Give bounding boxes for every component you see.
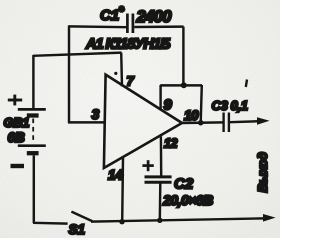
battery GB1	[18, 109, 46, 153]
wire output to C3	[182, 121, 223, 124]
wire output branch vertical	[201, 85, 202, 123]
svg-text:14: 14	[108, 168, 124, 183]
svg-text:0,1: 0,1	[231, 98, 248, 113]
svg-text:10: 10	[184, 108, 199, 123]
svg-text:2400: 2400	[136, 8, 173, 26]
output arrow head	[257, 117, 270, 125]
svg-text:20,0×6В: 20,0×6В	[162, 192, 213, 208]
stray dot near triangle corner	[114, 72, 117, 75]
ground rail arrow (common output)	[263, 214, 276, 222]
battery plus sign	[8, 95, 22, 106]
wire battery bottom lead	[33, 155, 35, 223]
wire bottom rail right	[91, 218, 264, 221]
wire left vertical (pin 3 feed)	[68, 25, 70, 122]
svg-text:А1: А1	[85, 37, 104, 53]
svg-text:9: 9	[164, 97, 173, 114]
capacitor C2	[145, 176, 214, 209]
wire pin 14 vertical	[121, 158, 124, 222]
wire bottom rail left	[33, 222, 68, 225]
wire pin 3 horizontal	[68, 121, 106, 123]
svg-text:GB1: GB1	[4, 115, 30, 130]
wire pin 9 branch vertical	[159, 85, 161, 110]
wire C3 to output arrow	[230, 121, 259, 122]
svg-text:C2: C2	[174, 176, 194, 193]
svg-text:3: 3	[92, 106, 100, 122]
switch S1 blade	[71, 212, 92, 222]
wire pin 7 vertical	[120, 53, 123, 87]
svg-text:Выход: Выход	[256, 152, 270, 193]
node dot pin14 rail junction	[119, 219, 124, 224]
wire battery top lead	[32, 55, 34, 108]
svg-text:С3: С3	[212, 98, 229, 113]
svg-text:S1: S1	[69, 222, 86, 237]
svg-text:C1: C1	[100, 7, 119, 24]
wire pin 12 to C2	[160, 136, 163, 175]
capacitor C3	[212, 98, 248, 132]
stray ink mark	[246, 80, 247, 88]
C2 plus sign	[142, 160, 153, 171]
svg-text:6В: 6В	[8, 130, 26, 145]
svg-text:12: 12	[164, 137, 178, 151]
op-amp A1 triangle	[104, 75, 182, 168]
wire mid horizontal (supply)	[33, 53, 122, 56]
node dot feedback junction	[181, 82, 187, 88]
wire C2 bottom lead	[159, 184, 162, 222]
wire feedback vertical	[182, 27, 184, 86]
node dot C2 rail junction	[157, 218, 162, 223]
wire top feedback horizontal left	[69, 25, 127, 28]
svg-text:7: 7	[127, 74, 135, 89]
wire top feedback horizontal right	[134, 25, 183, 28]
node dot output junction	[198, 120, 204, 126]
wire box top between pin9 and output	[160, 84, 202, 86]
svg-text:К118УН1Б: К118УН1Б	[106, 37, 171, 53]
capacitor C1	[100, 4, 172, 34]
battery minus sign	[11, 164, 25, 168]
